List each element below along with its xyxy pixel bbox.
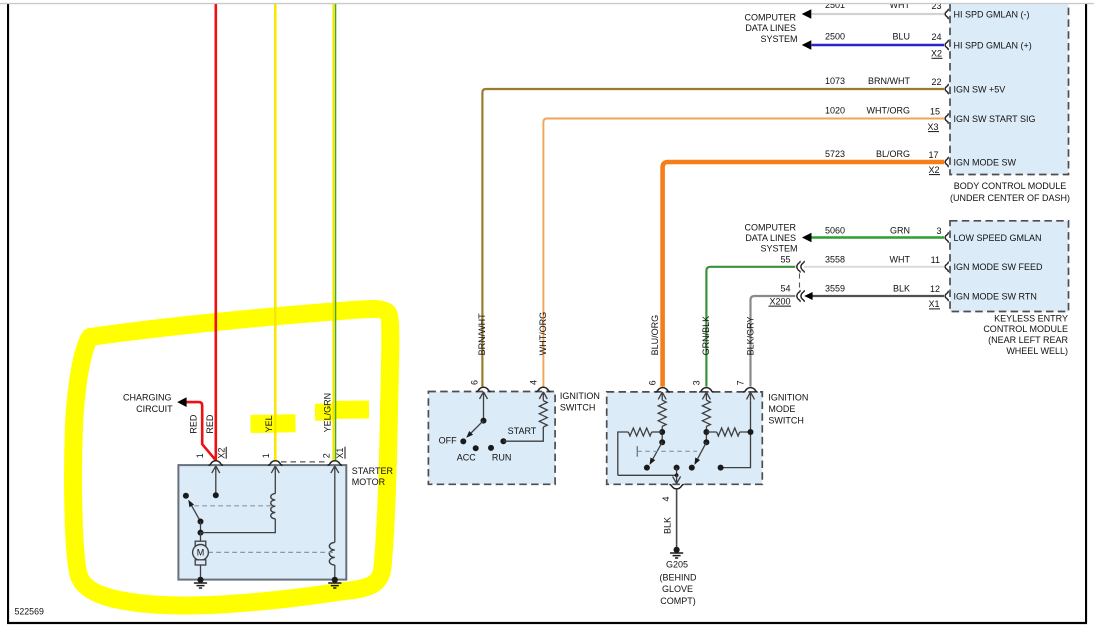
- svg-text:X1: X1: [335, 448, 345, 459]
- contact dot START: [500, 438, 506, 444]
- svg-text:X2: X2: [931, 49, 942, 59]
- wire BLK/GRY from connector 54 down to mode switch pin 7: [751, 296, 796, 387]
- svg-text:1: 1: [195, 453, 205, 458]
- svg-text:522569: 522569: [15, 607, 44, 617]
- svg-text:BL/ORG: BL/ORG: [876, 149, 910, 159]
- horizontal resistor right (mode switch): [717, 428, 740, 436]
- svg-text:SWITCH: SWITCH: [560, 403, 596, 413]
- wire pivot to junction: [200, 522, 202, 533]
- wire GRN/BLK from connector 55 down to mode switch pin 3: [706, 267, 795, 387]
- arrow computer data lines (row 2500): [802, 40, 812, 49]
- pin connector mode switch pin 4: [669, 485, 683, 489]
- svg-text:DATA LINES: DATA LINES: [745, 233, 796, 243]
- contact dot RUN: [488, 445, 494, 451]
- svg-text:SYSTEM: SYSTEM: [760, 34, 797, 44]
- svg-text:1073: 1073: [825, 76, 845, 86]
- junction dot pin7/right resistor: [748, 429, 754, 435]
- wire 2501 WHT - HI SPD GMLAN (-): [812, 13, 945, 15]
- module U2 KEYLESS ENTRY CONTROL MODULE box: [950, 221, 1069, 312]
- switch arm to OFF: [471, 421, 483, 433]
- wire 1020 WHT/ORG - IGN SW START SIG: [543, 119, 944, 387]
- switch arm A: [653, 442, 662, 459]
- wire coil to bus: [201, 519, 276, 533]
- wire bottom bus (mode switch): [618, 474, 677, 476]
- svg-text:CIRCUIT: CIRCUIT: [136, 404, 173, 414]
- pin connector keyless pin 11: [945, 262, 948, 272]
- yellow highlighter loop annotation around starter motor: [73, 309, 390, 605]
- switch pivot dot B (mode switch): [703, 439, 709, 445]
- pin connector BCM pin 17: [945, 157, 948, 167]
- wire START contact to resistor: [503, 427, 543, 441]
- svg-text:BRN/WHT: BRN/WHT: [868, 76, 910, 86]
- svg-text:HI SPD GMLAN (+): HI SPD GMLAN (+): [954, 40, 1032, 50]
- wire left resistor to left vertical: [618, 432, 629, 475]
- wire RED branch to charging circuit: [186, 402, 216, 460]
- svg-text:ACC: ACC: [457, 453, 477, 463]
- contact dot starter switch: [183, 493, 189, 499]
- svg-text:(UNDER CENTER OF DASH): (UNDER CENTER OF DASH): [950, 193, 1070, 203]
- motor M armature symbol: [195, 541, 206, 546]
- pin connector ignition switch pin 4: [536, 387, 550, 391]
- resistor below pin 6: [658, 400, 666, 426]
- connector dashed segment between starter pin1 and X1: [281, 461, 327, 463]
- arrow out of mode switch pin 4: [673, 475, 681, 483]
- pin connector starter X2: [209, 461, 223, 465]
- svg-text:2500: 2500: [825, 32, 845, 42]
- junction dot bottom bus: [675, 473, 679, 477]
- svg-text:5723: 5723: [825, 149, 845, 159]
- pull-in coil (starter): [271, 494, 276, 519]
- mechanical link dashed line: [637, 446, 697, 456]
- pin connector keyless pin 12: [945, 291, 948, 301]
- svg-text:BRN/WHT: BRN/WHT: [477, 313, 487, 355]
- svg-text:22: 22: [931, 77, 941, 87]
- pin connector BCM pin 15: [945, 113, 948, 123]
- arrow to charging circuit: [177, 397, 186, 407]
- svg-text:15: 15: [930, 106, 940, 116]
- wire 5060 GRN - LOW SPEED GMLAN: [812, 236, 945, 238]
- svg-text:YEL/GRN: YEL/GRN: [322, 393, 332, 433]
- svg-text:COMPT): COMPT): [660, 596, 696, 606]
- pin connector mode switch pin 7: [743, 388, 757, 392]
- contact dot OFF: [460, 438, 466, 444]
- arrow into starter X2: [212, 466, 220, 495]
- wire left resistor to junction: [652, 431, 663, 433]
- svg-text:3558: 3558: [825, 254, 845, 264]
- horizontal resistor left (mode switch): [628, 428, 651, 436]
- svg-text:MOTOR: MOTOR: [352, 477, 386, 487]
- svg-text:BLK: BLK: [893, 284, 910, 294]
- svg-text:12: 12: [930, 284, 940, 294]
- svg-text:G205: G205: [666, 560, 688, 570]
- pin connector BCM pin 22: [945, 84, 948, 94]
- svg-text:DATA LINES: DATA LINES: [745, 23, 796, 33]
- arrowhead at connector 54: [804, 292, 812, 300]
- motor M1 STARTER MOTOR box: [178, 465, 346, 579]
- ground starter motor left: [197, 577, 203, 583]
- arrow into mode switch pin 3: [702, 392, 710, 400]
- junction dot pin6/left resistor: [659, 429, 665, 435]
- svg-text:CONTROL MODULE: CONTROL MODULE: [983, 324, 1068, 334]
- dashed link motor to hold-in coil: [208, 551, 334, 553]
- wire YEL/GRN vertical to starter X1: [332, 4, 334, 460]
- svg-text:WHT/ORG: WHT/ORG: [867, 106, 911, 116]
- svg-text:17: 17: [928, 150, 938, 160]
- wire 5723 BL/ORG - IGN MODE SW (thick): [663, 162, 944, 387]
- wire RED battery feed vertical to starter X2: [215, 4, 218, 460]
- switch S1 IGNITION SWITCH box: [428, 392, 555, 485]
- arrow into ignition switch pin 6: [480, 392, 488, 421]
- svg-text:RUN: RUN: [492, 453, 512, 463]
- svg-text:3559: 3559: [825, 284, 845, 294]
- pin connector mode switch pin 3: [699, 388, 713, 392]
- ground starter motor right: [332, 577, 338, 583]
- pin connector BCM pin 24: [945, 40, 948, 50]
- svg-text:MODE: MODE: [768, 404, 795, 414]
- svg-text:HI SPD GMLAN (-): HI SPD GMLAN (-): [954, 9, 1030, 19]
- svg-text:(BEHIND: (BEHIND: [659, 572, 697, 582]
- switch arm starter solenoid: [192, 506, 201, 522]
- svg-text:SWITCH: SWITCH: [768, 416, 804, 426]
- svg-text:M: M: [197, 548, 205, 558]
- svg-text:X200: X200: [769, 296, 790, 306]
- resistor in ignition switch pin 4 branch: [539, 401, 547, 427]
- svg-text:2: 2: [321, 453, 331, 458]
- wire resistor to pivot (pin 6 branch): [661, 426, 663, 442]
- switch arm B: [698, 442, 707, 459]
- svg-text:SYSTEM: SYSTEM: [760, 244, 797, 254]
- svg-text:IGNITION: IGNITION: [768, 393, 808, 403]
- svg-text:BLK/GRY: BLK/GRY: [745, 317, 755, 356]
- pin connector keyless pin 3: [945, 232, 948, 242]
- svg-text:COMPUTER: COMPUTER: [745, 223, 797, 233]
- svg-text:WHT/ORG: WHT/ORG: [538, 312, 548, 356]
- resistor below pin 3: [702, 400, 710, 426]
- svg-text:START: START: [508, 426, 537, 436]
- wire BLK mode switch to G205: [676, 489, 678, 549]
- dashed link solenoid to pull-in coil: [194, 505, 272, 507]
- svg-text:KEYLESS ENTRY: KEYLESS ENTRY: [994, 313, 1068, 323]
- svg-text:X2: X2: [928, 165, 939, 175]
- svg-text:COMPUTER: COMPUTER: [745, 13, 797, 23]
- svg-text:RED: RED: [205, 414, 215, 434]
- svg-text:STARTER: STARTER: [352, 466, 394, 476]
- pin connector ignition switch pin 6: [476, 387, 490, 391]
- hold-in coil (starter): [329, 542, 334, 565]
- contact dot center (mode switch): [674, 465, 680, 471]
- svg-text:CHARGING: CHARGING: [123, 392, 172, 402]
- arrow into mode switch pin 7: [747, 392, 755, 400]
- svg-text:1: 1: [261, 453, 271, 458]
- svg-text:YEL: YEL: [264, 415, 274, 432]
- svg-text:1020: 1020: [825, 106, 845, 116]
- wire junction to motor: [200, 533, 202, 542]
- arrow into mode switch pin 6: [658, 392, 666, 400]
- yellow highlight bar over YEL/GRN label: [315, 404, 333, 421]
- contact dot right (mode switch): [718, 465, 724, 471]
- svg-text:WHEEL WELL): WHEEL WELL): [1006, 346, 1068, 356]
- svg-text:BODY CONTROL MODULE: BODY CONTROL MODULE: [954, 181, 1067, 191]
- svg-text:GRN: GRN: [890, 225, 910, 235]
- wire 3558 WHT - IGN MODE SW FEED: [804, 266, 944, 268]
- connector X200 dashed link between rows: [799, 274, 801, 290]
- wire pin 7 right-side vertical: [721, 400, 751, 467]
- svg-text:IGNITION: IGNITION: [560, 391, 600, 401]
- svg-text:GRN/BLK: GRN/BLK: [701, 316, 711, 356]
- svg-text:11: 11: [931, 255, 940, 265]
- svg-text:BLU/ORG: BLU/ORG: [650, 315, 660, 356]
- svg-text:6: 6: [470, 380, 480, 385]
- yellow highlight bar over YEL label: [251, 414, 296, 433]
- contact dot ACC: [473, 445, 479, 451]
- wire resistor to pivot (pin 3 branch): [705, 426, 707, 442]
- pin connector mode switch pin 6: [655, 388, 669, 392]
- svg-text:5060: 5060: [825, 225, 845, 235]
- svg-text:LOW SPEED GMLAN: LOW SPEED GMLAN: [954, 233, 1042, 243]
- wire 3559 BLK - IGN MODE SW RTN: [809, 295, 944, 297]
- svg-text:6: 6: [648, 380, 658, 385]
- pin connector BCM pin 23: [945, 9, 948, 19]
- svg-text:7: 7: [736, 380, 746, 385]
- svg-text:3: 3: [936, 226, 941, 236]
- svg-text:X3: X3: [927, 122, 938, 132]
- wire right resistor stubs: [706, 431, 750, 433]
- switch pivot dot (ignition switch): [481, 418, 487, 424]
- wire coil to ground (right): [334, 565, 336, 580]
- svg-text:IGN MODE SW: IGN MODE SW: [954, 157, 1017, 167]
- arrow into starter X1: [331, 466, 339, 543]
- svg-text:X2: X2: [216, 448, 226, 459]
- svg-text:GLOVE: GLOVE: [662, 584, 693, 594]
- junction dot below X2: [213, 492, 219, 498]
- pin connector starter pin 1: [268, 461, 282, 465]
- arrow computer data lines (row 2501): [802, 9, 812, 18]
- switch pivot dot A (mode switch): [659, 439, 665, 445]
- pin connector starter X1: [328, 461, 342, 465]
- wire center contact to bottom: [676, 468, 678, 476]
- svg-text:4: 4: [529, 380, 539, 385]
- svg-text:3: 3: [692, 380, 702, 385]
- svg-text:IGN SW START SIG: IGN SW START SIG: [954, 114, 1036, 124]
- svg-text:54: 54: [780, 284, 790, 294]
- svg-text:IGN MODE SW FEED: IGN MODE SW FEED: [954, 262, 1044, 272]
- svg-text:BLU: BLU: [892, 32, 910, 42]
- svg-text:IGN MODE SW RTN: IGN MODE SW RTN: [954, 291, 1037, 301]
- switch S2 IGNITION MODE SWITCH box: [607, 392, 763, 484]
- junction dot coil bus: [198, 530, 204, 536]
- svg-text:(NEAR LEFT REAR: (NEAR LEFT REAR: [988, 335, 1068, 345]
- svg-text:WHT: WHT: [890, 254, 911, 264]
- svg-text:IGN SW +5V: IGN SW +5V: [954, 84, 1006, 94]
- svg-text:24: 24: [931, 32, 941, 42]
- wire 2500 BLU - HI SPD GMLAN (+): [812, 44, 945, 47]
- arrow computer data lines (row 5060): [802, 233, 812, 242]
- module U1 BODY CONTROL MODULE box: [950, 4, 1069, 175]
- junction dot pin3/right resistor: [703, 429, 709, 435]
- contact dot A (mode switch): [644, 465, 650, 471]
- svg-text:OFF: OFF: [439, 435, 457, 445]
- in-line connector 54: [797, 290, 800, 302]
- wire motor to ground (left): [200, 565, 202, 580]
- wire 1073 BRN/WHT - IGN SW +5V: [482, 89, 944, 387]
- arrow into starter pin 1: [271, 466, 279, 494]
- svg-text:RED: RED: [189, 414, 199, 434]
- arrow into ignition switch pin 4: [539, 392, 547, 401]
- svg-text:X1: X1: [928, 299, 939, 309]
- ground G205: [674, 547, 680, 553]
- wire YEL vertical to starter pin 1: [274, 4, 277, 460]
- svg-text:4: 4: [661, 496, 671, 501]
- svg-text:55: 55: [780, 254, 790, 264]
- switch pivot dot (starter): [198, 519, 204, 525]
- in-line connector 55: [797, 261, 800, 273]
- svg-text:BLK: BLK: [663, 517, 673, 534]
- contact dot B (mode switch): [689, 465, 695, 471]
